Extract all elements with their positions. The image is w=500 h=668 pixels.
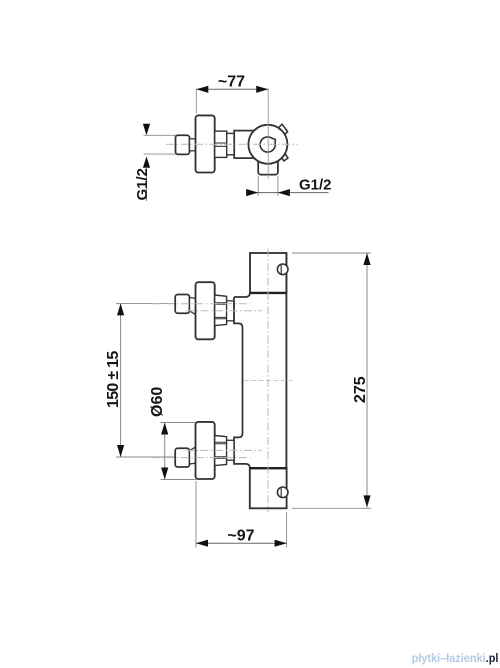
arrow down 275 <box>363 495 370 507</box>
top nut-body connector (front) <box>227 301 234 321</box>
bottom wall union knob (front) <box>175 448 189 467</box>
extension line G1/2 bottom (knob bottom edge) <box>144 153 177 155</box>
inner circle with key notch <box>260 137 275 152</box>
svg-text:Ø60: Ø60 <box>149 387 166 417</box>
heavy line over bottom block <box>250 467 287 469</box>
bottom nut-body connector (front) <box>227 440 234 460</box>
bottom hex nut (front) <box>215 436 227 466</box>
top inlet boss outline <box>234 293 250 468</box>
nut-body connector (top view) <box>227 133 235 154</box>
dimension line ~97 <box>196 542 287 544</box>
extension lines outlet G1/2 <box>258 176 278 196</box>
arrow down 150 <box>117 445 124 457</box>
arrow to outlet left edge <box>246 189 258 196</box>
mid-body horizontal dashed axis <box>244 380 293 382</box>
dimension line G1/2 left <box>146 169 148 201</box>
centerline bottom union <box>152 457 250 459</box>
lug top-right on valve circle <box>278 124 288 135</box>
arrow up d60 <box>161 423 168 435</box>
arrow right ~77 <box>256 86 268 93</box>
handle wheel (top view) <box>196 115 215 172</box>
body top block <box>250 253 286 293</box>
extension line d60 top <box>161 422 197 424</box>
arrow up 275 <box>363 253 370 265</box>
dimension line ~77 <box>196 88 268 90</box>
extension line d60 bottom <box>161 479 197 481</box>
arrow to outlet right edge <box>278 189 290 196</box>
body right edge <box>285 253 287 508</box>
watermark plytki-lazienki.pl <box>411 653 498 665</box>
lug bottom-right on valve circle <box>281 153 289 161</box>
valve body circle (top view) <box>248 125 287 164</box>
vertical centerline through valve circle <box>267 89 269 178</box>
centerline top union <box>152 303 250 305</box>
dimension line 150 <box>120 303 122 457</box>
svg-text:150 ± 15: 150 ± 15 <box>105 351 122 408</box>
svg-text:~77: ~77 <box>218 74 245 91</box>
top hex nut (front) <box>215 295 227 326</box>
extension line 275 top <box>292 252 371 254</box>
centerline bottom wheel axis <box>186 449 262 451</box>
centerline horizontal top view <box>166 143 298 145</box>
dimension line G1/2 outlet <box>246 192 329 194</box>
dimension line 275 <box>366 253 368 507</box>
extension line 275 bottom <box>292 507 371 509</box>
top nut chamfer lines <box>215 303 227 319</box>
extension line ~97 right <box>286 512 288 548</box>
wall connector small knob (top view) <box>176 135 190 154</box>
bottom eccentric connector (front) <box>190 447 196 464</box>
top handle wheel (front) <box>196 282 215 339</box>
extension line 150 top <box>116 302 175 304</box>
centerline top wheel axis <box>186 310 262 312</box>
dimension line d60 <box>164 424 166 480</box>
extension line G1/2 top (knob top edge) <box>144 134 177 136</box>
svg-text:275: 275 <box>352 376 369 403</box>
arrow left ~97 <box>196 540 208 547</box>
top mounting screw <box>277 264 288 275</box>
hex nut (top view) <box>215 131 227 157</box>
top wall union knob (front) <box>175 295 189 314</box>
body bottom block <box>250 468 287 508</box>
arrow left ~77 <box>196 86 208 93</box>
vertical centerline of body <box>267 249 269 513</box>
arrow up 150 <box>117 303 124 315</box>
knob-wheel connector (top view) <box>190 139 197 151</box>
extension line ~77 left <box>195 89 197 113</box>
arrow down to knob top <box>143 124 150 135</box>
bottom nut chamfer lines <box>215 442 227 458</box>
arrow down d60 <box>161 468 168 480</box>
body block (top view) <box>234 131 255 159</box>
bottom handle wheel (front) <box>196 422 215 479</box>
arrow up to knob bottom <box>143 156 150 167</box>
svg-text:~97: ~97 <box>227 528 254 545</box>
nut chamfer lines (top view) <box>215 143 227 146</box>
arrow right ~97 <box>275 540 287 547</box>
heavy line under top block <box>250 292 286 294</box>
extension line 150 bottom <box>116 456 175 458</box>
top eccentric connector (front) <box>190 298 196 315</box>
bottom mounting screw <box>277 487 288 498</box>
extension line ~97 left <box>195 481 197 548</box>
shower outlet downward (top view) <box>258 150 278 175</box>
svg-text:G1/2: G1/2 <box>134 168 151 201</box>
svg-text:G1/2: G1/2 <box>299 177 332 194</box>
